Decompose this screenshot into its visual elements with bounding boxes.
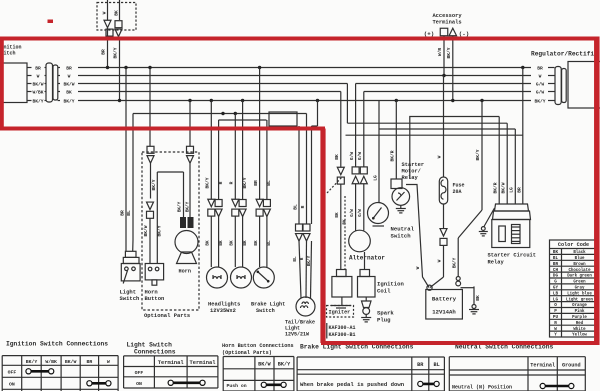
- svg-text:BK: BK: [114, 10, 120, 16]
- svg-text:Relay: Relay: [488, 260, 505, 266]
- svg-text:BK/Y: BK/Y: [185, 201, 190, 212]
- svg-text:Neutral: Neutral: [391, 226, 415, 233]
- svg-text:ON: ON: [136, 381, 142, 387]
- svg-text:BK/Y: BK/Y: [113, 47, 119, 58]
- svg-text:Fuse: Fuse: [453, 183, 465, 189]
- svg-text:Terminals: Terminals: [432, 20, 461, 26]
- svg-text:BK: BK: [254, 240, 259, 246]
- svg-text:Neutral (N) Position: Neutral (N) Position: [452, 385, 512, 391]
- svg-text:BK/Y: BK/Y: [475, 149, 481, 160]
- svg-text:12V14Ah: 12V14Ah: [432, 309, 456, 316]
- svg-text:Connections: Connections: [134, 349, 176, 356]
- svg-text:Light Switch: Light Switch: [127, 342, 173, 349]
- svg-text:Color Code: Color Code: [558, 242, 589, 248]
- svg-text:Battery: Battery: [432, 296, 457, 303]
- svg-text:BK/W: BK/W: [63, 81, 74, 87]
- svg-text:Plug: Plug: [377, 317, 391, 324]
- svg-text:Brake Light: Brake Light: [251, 302, 285, 308]
- svg-text:W: W: [415, 266, 421, 269]
- svg-text:Ignition: Ignition: [377, 281, 404, 288]
- svg-text:BK/Y: BK/Y: [242, 177, 248, 188]
- svg-text:Optional Parts: Optional Parts: [144, 312, 190, 319]
- svg-text:BL: BL: [126, 210, 132, 216]
- svg-text:BR: BR: [87, 359, 93, 365]
- svg-text:BR: BR: [537, 65, 543, 71]
- svg-text:Regulator/Rectifie: Regulator/Rectifie: [531, 51, 598, 58]
- svg-text:W: W: [68, 73, 71, 79]
- svg-text:Motor/: Motor/: [402, 169, 421, 175]
- svg-text:BR: BR: [516, 187, 522, 193]
- svg-text:Button: Button: [145, 295, 165, 302]
- svg-text:G/W: G/W: [357, 152, 363, 161]
- svg-text:BK: BK: [66, 89, 72, 95]
- svg-text:Yellow: Yellow: [572, 333, 587, 338]
- svg-text:W: W: [107, 359, 110, 365]
- svg-text:W: W: [437, 259, 443, 262]
- svg-text:BK/W: BK/W: [258, 362, 271, 368]
- svg-text:BK: BK: [230, 240, 235, 246]
- svg-text:Horn Button Connections: Horn Button Connections: [222, 343, 294, 349]
- svg-text:BK: BK: [334, 154, 340, 160]
- svg-text:BK/Y: BK/Y: [534, 98, 545, 104]
- svg-text:Switch: Switch: [391, 233, 412, 240]
- svg-text:When brake pedal is pushed dow: When brake pedal is pushed down: [300, 381, 405, 388]
- svg-text:Headlights: Headlights: [208, 302, 240, 308]
- svg-text:G/W: G/W: [350, 209, 355, 217]
- svg-text:BK/W: BK/W: [32, 81, 43, 87]
- svg-text:(Optional Parts): (Optional Parts): [222, 350, 272, 356]
- svg-text:Alternator: Alternator: [349, 255, 385, 262]
- svg-text:BK/W: BK/W: [65, 359, 77, 365]
- svg-text:Switch: Switch: [256, 308, 275, 314]
- svg-text:BK/Y: BK/Y: [32, 98, 43, 104]
- svg-text:R: R: [300, 205, 306, 208]
- svg-text:BL: BL: [292, 204, 298, 210]
- svg-text:BK/Y: BK/Y: [151, 179, 157, 190]
- svg-text:(+): (+): [424, 31, 434, 38]
- svg-text:20A: 20A: [453, 189, 462, 195]
- svg-text:Ground: Ground: [562, 363, 581, 369]
- svg-text:LG: LG: [372, 175, 378, 181]
- svg-text:BK/Y: BK/Y: [278, 362, 291, 368]
- svg-text:12V5/21W: 12V5/21W: [285, 332, 309, 338]
- svg-text:Terminal: Terminal: [158, 360, 185, 366]
- svg-text:BK/Y: BK/Y: [452, 257, 457, 268]
- svg-text:Ignition Switch Connections: Ignition Switch Connections: [6, 341, 108, 348]
- svg-text:BR: BR: [101, 49, 107, 55]
- svg-text:Switch: Switch: [120, 295, 140, 302]
- svg-text:BL: BL: [266, 180, 272, 186]
- svg-text:BK/R: BK/R: [390, 150, 396, 161]
- svg-text:itch: itch: [4, 51, 16, 57]
- svg-text:BK/Y: BK/Y: [178, 201, 183, 212]
- svg-text:R: R: [229, 181, 235, 184]
- svg-text:Y: Y: [554, 333, 557, 338]
- svg-text:Terminal: Terminal: [530, 363, 555, 369]
- svg-text:BK/W: BK/W: [143, 225, 149, 236]
- svg-text:BK/Y: BK/Y: [63, 98, 74, 104]
- svg-text:R: R: [218, 181, 224, 184]
- svg-text:Accessory: Accessory: [432, 13, 462, 19]
- svg-text:G/W: G/W: [349, 152, 355, 161]
- svg-text:Terminal: Terminal: [190, 360, 217, 366]
- svg-text:BK: BK: [219, 240, 224, 246]
- svg-text:BR: BR: [35, 65, 41, 71]
- svg-text:ON: ON: [9, 382, 15, 388]
- svg-text:OFF: OFF: [8, 370, 17, 376]
- svg-text:LG: LG: [509, 187, 515, 193]
- svg-text:12V35Wx2: 12V35Wx2: [210, 308, 236, 314]
- svg-text:KAF300-A1: KAF300-A1: [329, 325, 356, 331]
- svg-text:Starter Circuit: Starter Circuit: [488, 253, 537, 259]
- svg-text:W: W: [539, 73, 542, 79]
- svg-text:BK/Y: BK/Y: [205, 177, 211, 188]
- svg-text:(-): (-): [459, 31, 469, 38]
- svg-text:W: W: [37, 73, 40, 79]
- svg-text:KAF300-B1: KAF300-B1: [329, 332, 356, 338]
- svg-text:Push on: Push on: [227, 383, 247, 389]
- svg-text:Starter: Starter: [402, 162, 425, 168]
- svg-text:BK/Y: BK/Y: [26, 359, 38, 365]
- svg-text:W/R: W/R: [437, 48, 443, 57]
- svg-text:BK/R: BK/R: [493, 182, 499, 193]
- svg-text:BK/W: BK/W: [501, 182, 507, 193]
- svg-text:Igniter: Igniter: [329, 310, 351, 316]
- svg-text:W/BK: W/BK: [45, 359, 57, 365]
- svg-text:BR: BR: [417, 362, 424, 368]
- svg-text:W: W: [437, 155, 443, 158]
- svg-text:G/W: G/W: [358, 209, 363, 217]
- svg-text:OFF: OFF: [135, 370, 144, 376]
- svg-text:BK/Y: BK/Y: [446, 47, 452, 58]
- svg-text:Horn: Horn: [179, 269, 191, 275]
- svg-text:BL: BL: [267, 240, 272, 246]
- svg-text:BK: BK: [206, 240, 211, 246]
- svg-text:BR: BR: [66, 65, 72, 71]
- svg-text:BK/Y: BK/Y: [307, 255, 312, 266]
- svg-text:G/W: G/W: [536, 89, 545, 95]
- svg-text:Coil: Coil: [377, 288, 391, 295]
- svg-text:BR: BR: [119, 210, 125, 216]
- svg-text:R: R: [300, 257, 305, 260]
- svg-text:G/W: G/W: [536, 81, 545, 87]
- svg-text:BR: BR: [253, 180, 259, 186]
- svg-text:W/BK: W/BK: [32, 89, 43, 95]
- svg-text:BL: BL: [293, 256, 298, 262]
- svg-text:BK: BK: [475, 295, 481, 301]
- svg-text:W: W: [102, 11, 108, 14]
- svg-text:BK: BK: [243, 240, 248, 246]
- svg-text:BK: BK: [335, 212, 340, 218]
- svg-text:Spark: Spark: [377, 310, 394, 317]
- svg-text:BL: BL: [433, 362, 439, 368]
